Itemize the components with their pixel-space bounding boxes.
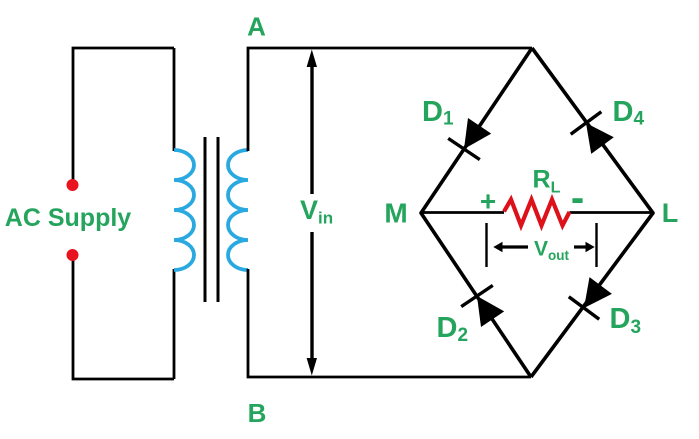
svg-text:A: A bbox=[247, 11, 266, 41]
svg-text:L: L bbox=[662, 198, 679, 228]
svg-text:M: M bbox=[384, 198, 407, 229]
svg-text:-: - bbox=[571, 176, 584, 220]
svg-text:B: B bbox=[248, 398, 267, 428]
svg-text:AC Supply: AC Supply bbox=[5, 204, 131, 232]
svg-text:+: + bbox=[480, 185, 496, 216]
